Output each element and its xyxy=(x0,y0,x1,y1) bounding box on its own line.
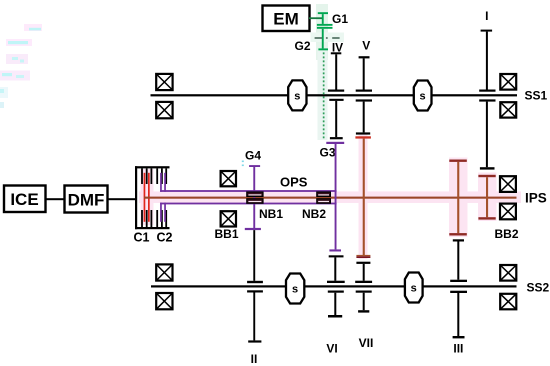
gear III top cap xyxy=(453,239,464,241)
gear G4 cap (purple, on OPS) xyxy=(249,165,260,167)
needle bearing NB2 lower block xyxy=(317,199,331,203)
gear I bottom cap xyxy=(480,167,495,169)
synchronizer S on SS2 right xyxy=(405,273,423,303)
gear III mesh cap above SS2 xyxy=(450,280,467,282)
clutch housing bottom bar xyxy=(135,227,170,229)
gear VII top cap xyxy=(356,262,370,264)
red gear column I bottom cap xyxy=(478,217,495,219)
gear VI lower stem xyxy=(334,293,336,315)
gear I top cap xyxy=(481,30,493,32)
svg-text:OPS: OPS xyxy=(280,174,308,189)
synchronizer S on SS1 left xyxy=(288,80,306,110)
secondary shaft SS2 xyxy=(151,285,517,287)
gear G3 cap (purple, on OPS) xyxy=(326,142,344,144)
clutch C2 driven plates top (purple) xyxy=(160,173,162,192)
red gear column I stem xyxy=(486,177,488,217)
svg-text:DMF: DMF xyxy=(68,191,105,210)
highlight glow: green band around axis dash line xyxy=(311,33,345,43)
gear VII upper stem xyxy=(363,264,365,281)
gear V lower stem xyxy=(363,102,365,133)
faint artifact marks top-left xyxy=(0,24,42,108)
purple stem G4 through OPS to gear II xyxy=(253,167,255,228)
svg-text:I: I xyxy=(485,9,488,23)
svg-text:C1: C1 xyxy=(134,231,150,245)
svg-text:VII: VII xyxy=(359,336,374,350)
svg-text:SS1: SS1 xyxy=(525,89,548,103)
svg-text:V: V xyxy=(362,39,370,53)
gear G1 top cap (green) xyxy=(318,12,328,14)
bearing SS2 left lower xyxy=(156,293,172,309)
highlight glow: green band around EM gear column G1/G2 xyxy=(316,4,328,60)
gear mesh G1/G2 double caps (green) xyxy=(317,24,333,26)
highlight glow: pink around red gear at column I xyxy=(478,173,497,222)
wire EM to gear G1 xyxy=(309,17,323,19)
gear IV lower stem xyxy=(335,101,337,137)
synchronizer S on SS1 right xyxy=(414,81,432,111)
dotted green link G2 to G3 xyxy=(323,52,325,138)
gear IV upper stem xyxy=(335,54,337,89)
highlight glow: pink around clutch C1 red plates xyxy=(141,169,154,225)
gear VII mesh cap below SS2 xyxy=(356,291,372,293)
red gear column III stem xyxy=(457,162,459,233)
gear VI bottom cap xyxy=(328,315,342,318)
gear II purple mesh cap xyxy=(245,228,261,230)
gear V upper stem xyxy=(363,58,365,89)
gear V mesh cap above SS1 xyxy=(356,90,372,92)
ICE box xyxy=(4,186,46,213)
svg-text:BB1: BB1 xyxy=(215,227,239,241)
clutch housing left wall xyxy=(135,166,137,229)
svg-text:G3: G3 xyxy=(320,146,336,160)
gear V mesh cap below SS1 xyxy=(356,99,372,101)
wire DMF to clutch housing xyxy=(108,198,136,200)
highlight glow: pink around red idler stem of gear VII column xyxy=(359,135,368,260)
wire ICE to DMF xyxy=(46,198,64,200)
bearing SS2 left upper xyxy=(156,264,172,280)
svg-text:EM: EM xyxy=(273,10,299,29)
bearing BB2 upper xyxy=(500,176,516,192)
needle bearing NB1 lower block xyxy=(247,199,263,203)
gear II mesh cap below SS2 xyxy=(247,290,263,292)
clutch C1 drive plates top xyxy=(141,168,143,184)
bearing SS2 right upper xyxy=(500,265,516,281)
gear G2 bottom cap (green) xyxy=(318,48,328,50)
red gear on IPS at column I: top cap xyxy=(478,175,495,177)
gear IV mesh cap above SS1 xyxy=(328,90,344,92)
clutch housing top bar xyxy=(135,166,170,168)
gear I upper stem xyxy=(486,32,488,90)
clutch C2 drive plates bottom xyxy=(156,210,158,227)
gear VII bottom cap xyxy=(358,310,369,312)
outer primary shaft OPS top line (purple) xyxy=(160,190,337,192)
gear VI upper stem xyxy=(334,257,336,280)
bearing SS1 left upper xyxy=(156,74,172,90)
gear G1 stem (green) xyxy=(322,14,324,24)
gear III lower stem xyxy=(457,293,459,336)
red idler stem through IPS to gear VII xyxy=(363,139,365,256)
svg-text:s: s xyxy=(420,90,426,102)
gear IV top cap xyxy=(331,52,342,54)
gear VI top cap xyxy=(329,255,344,257)
EM box xyxy=(263,6,310,32)
purple stem G3 through OPS to gear VI xyxy=(335,144,337,249)
svg-text:III: III xyxy=(453,342,463,356)
gear II upper stem xyxy=(253,230,255,281)
secondary shaft SS1 xyxy=(151,94,518,96)
clutch C1 drive plates bottom xyxy=(141,210,143,227)
gear I mesh cap above SS1 xyxy=(479,90,495,92)
svg-text:G1: G1 xyxy=(332,12,348,26)
gear II lower stem xyxy=(253,293,255,341)
gear III upper stem xyxy=(457,242,459,280)
svg-text:VI: VI xyxy=(326,342,337,356)
bearing SS1 right upper xyxy=(500,74,516,90)
gear IV bottom cap xyxy=(330,137,343,139)
bearing SS1 left lower xyxy=(156,102,172,118)
svg-text:NB1: NB1 xyxy=(259,207,283,221)
bearing SS2 right lower xyxy=(500,294,516,310)
svg-text:NB2: NB2 xyxy=(302,207,326,221)
red idler bottom cap above gear VII xyxy=(356,255,370,256)
highlight glow: pink around red gear at column III xyxy=(449,158,468,238)
svg-text:ICE: ICE xyxy=(10,190,38,209)
clutch C2 drive plates top xyxy=(156,168,158,184)
gear II bottom cap xyxy=(248,340,261,342)
needle bearing NB2 upper block xyxy=(317,192,331,196)
svg-text:SS2: SS2 xyxy=(527,280,550,294)
gear III bottom cap xyxy=(453,336,465,338)
gear VI purple mesh cap xyxy=(329,249,341,251)
highlight glow: mint band along dotted link xyxy=(318,51,328,140)
gear III mesh cap below SS2 xyxy=(450,291,467,293)
inner primary shaft IPS (brown) xyxy=(144,197,517,199)
svg-text:C2: C2 xyxy=(157,231,173,245)
DMF box xyxy=(65,186,108,213)
svg-text:G2: G2 xyxy=(295,39,311,53)
gear I mesh cap below SS1 xyxy=(479,99,495,101)
gear V top cap xyxy=(359,56,370,58)
bearing BB1 lower xyxy=(221,211,236,226)
svg-text:G4: G4 xyxy=(245,149,261,163)
gear VI mesh cap below SS2 xyxy=(328,291,344,293)
red idler gear cap below gear V xyxy=(355,136,371,138)
synchronizer S on SS2 left xyxy=(286,274,304,304)
cyan artifact dashes near G4 xyxy=(242,161,244,163)
svg-text:II: II xyxy=(251,352,258,366)
axis dash-dot line (dark green) xyxy=(315,37,323,39)
bearing BB2 lower xyxy=(500,204,516,220)
red gear on IPS at column III: top cap xyxy=(449,160,467,162)
svg-text:s: s xyxy=(294,90,300,102)
bearing BB1 upper xyxy=(221,171,236,186)
svg-text:s: s xyxy=(292,283,298,295)
gear VII lower stem xyxy=(363,293,365,311)
clutch C1 driven plates (red) xyxy=(144,173,146,222)
red gear column III bottom cap xyxy=(449,233,467,235)
gear V bottom cap xyxy=(356,132,370,134)
svg-text:IPS: IPS xyxy=(525,191,547,206)
gear G2 stem (green) xyxy=(322,29,324,49)
outer primary shaft OPS bottom line (purple) xyxy=(160,203,337,205)
bearing SS1 right lower xyxy=(500,102,516,117)
needle bearing NB1 upper block xyxy=(247,192,263,196)
clutch C2 driven plates bottom (purple) xyxy=(160,203,162,222)
highlight glow: pink band along primary shaft bundle xyxy=(139,191,521,203)
gear VII mesh cap above SS2 xyxy=(355,281,372,283)
gear I lower stem xyxy=(486,102,488,168)
svg-text:s: s xyxy=(411,283,417,295)
gear II mesh cap above SS2 xyxy=(247,281,263,283)
gear IV mesh cap below SS1 xyxy=(329,99,343,101)
gear VI mesh cap above SS2 xyxy=(327,281,345,283)
svg-text:BB2: BB2 xyxy=(495,227,519,241)
